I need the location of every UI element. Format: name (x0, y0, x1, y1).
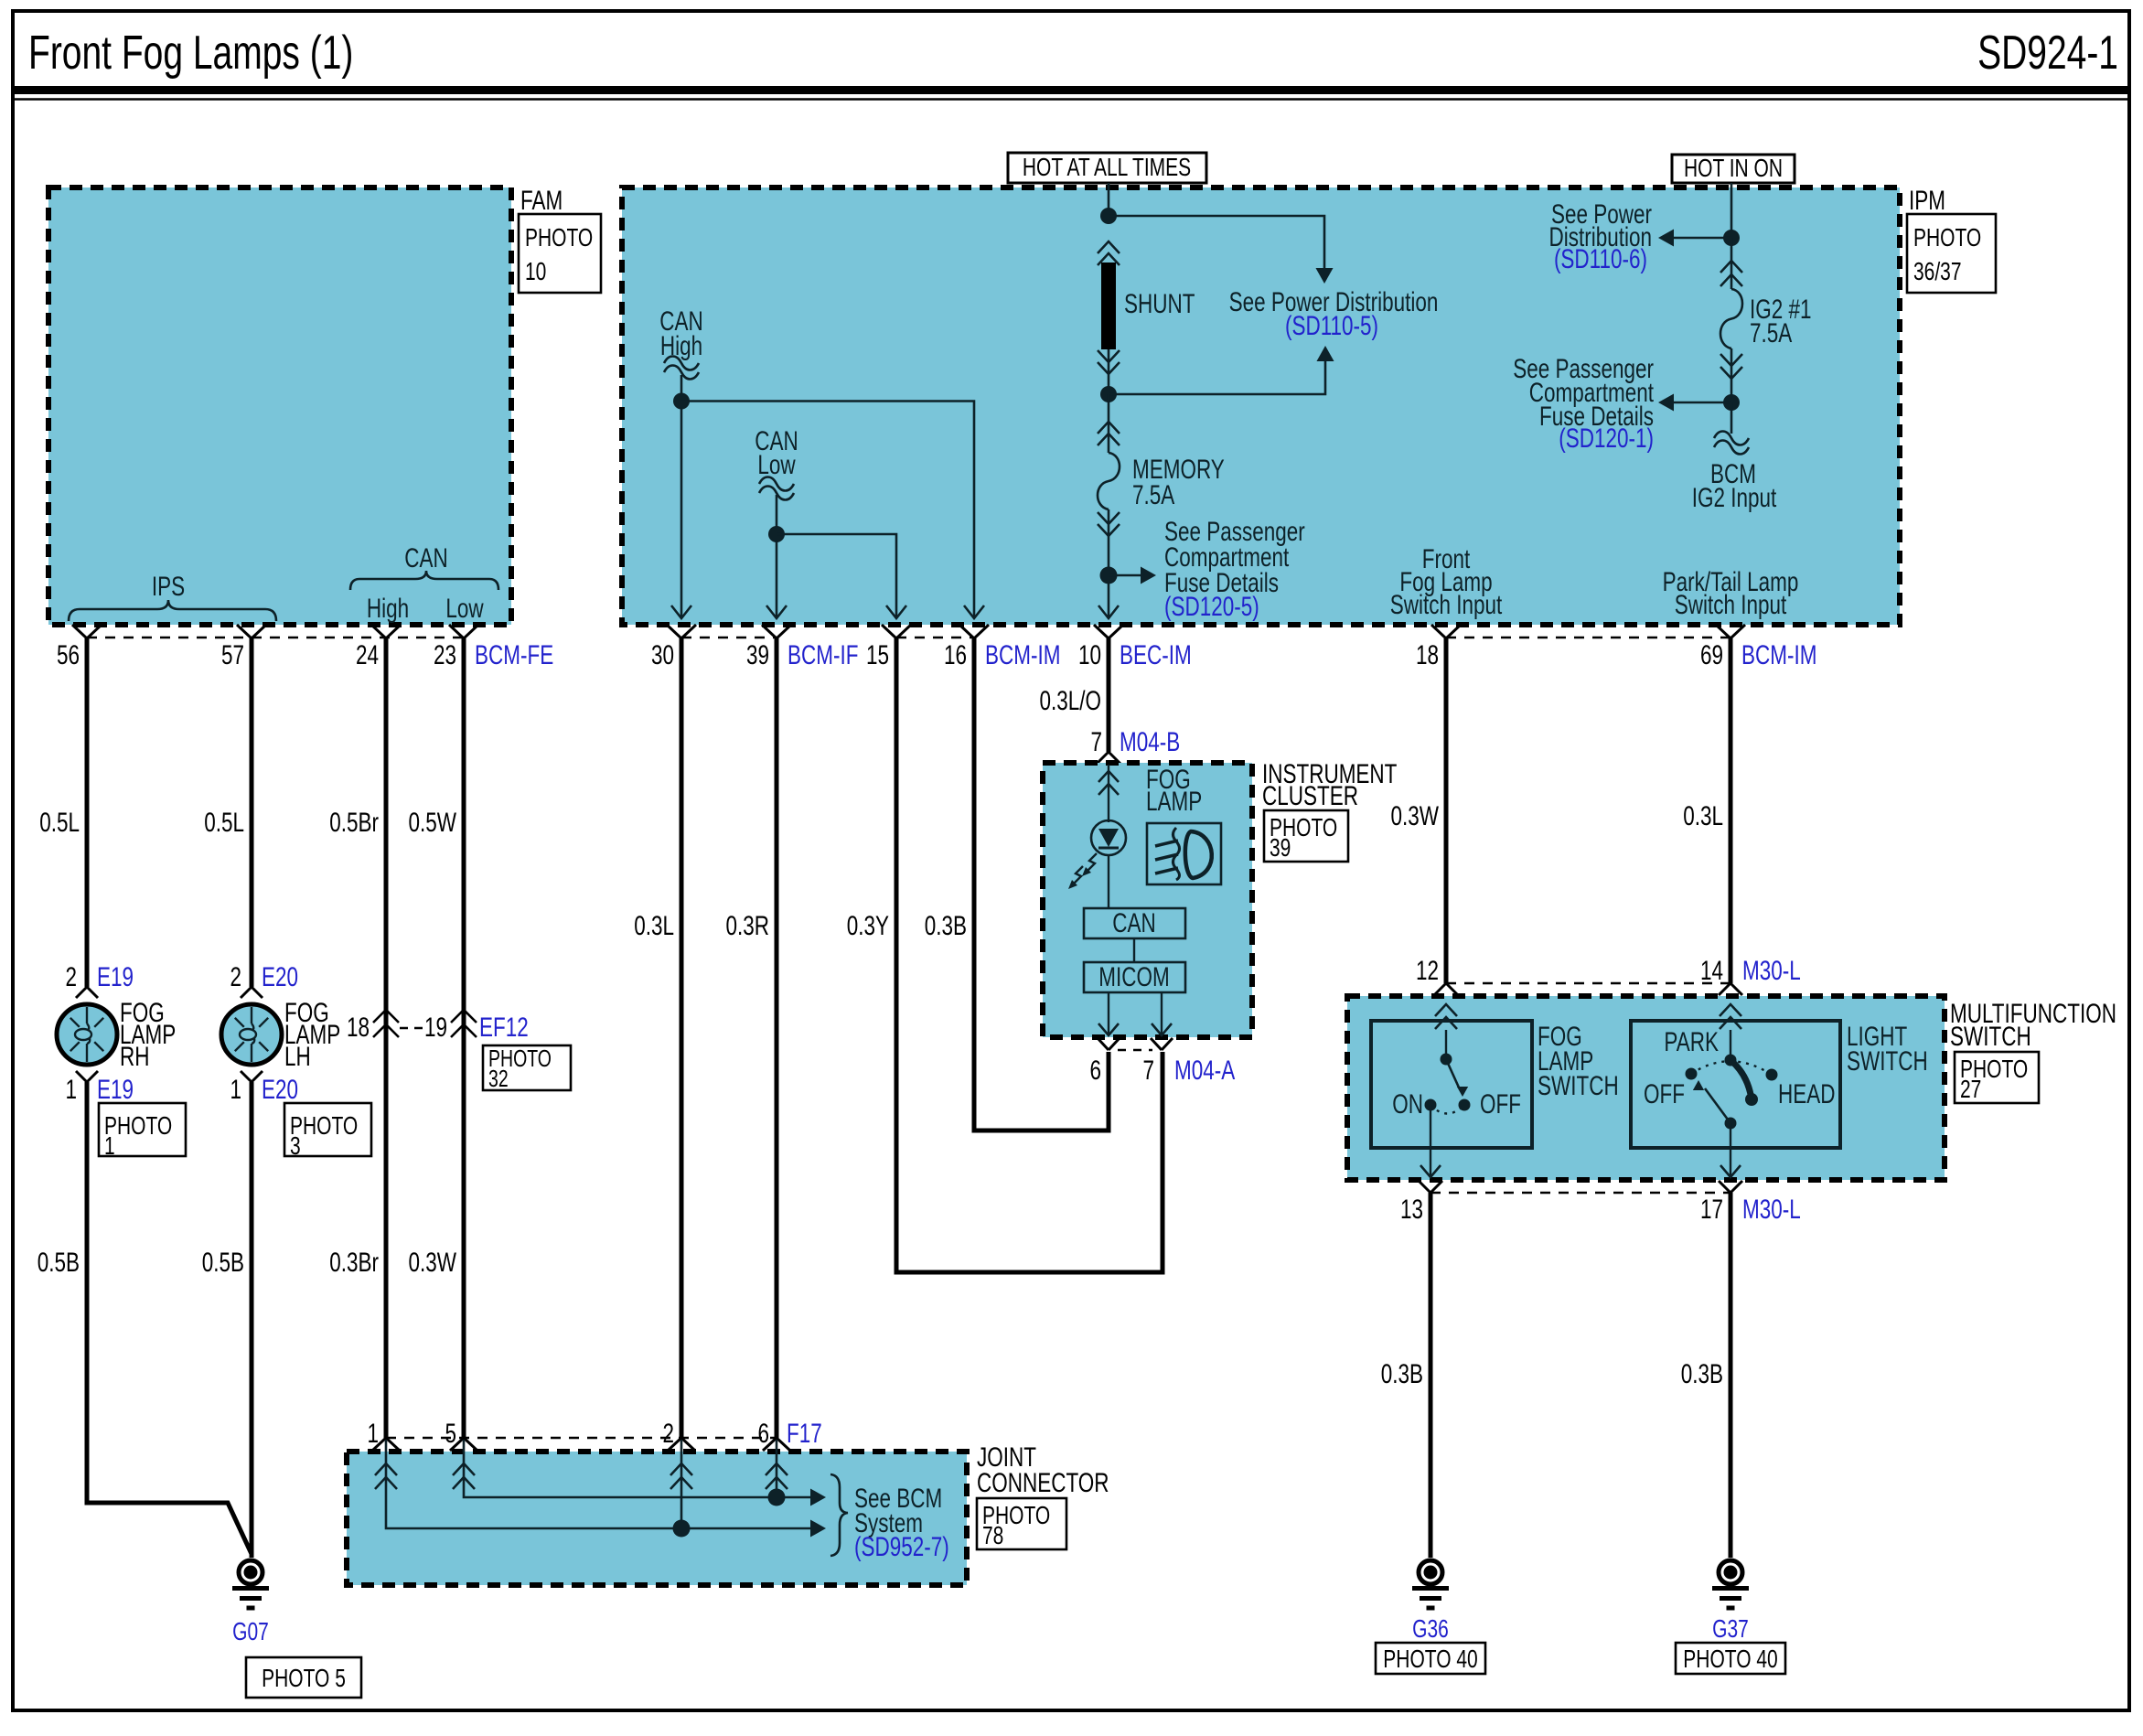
MFS entry chevrons pin14 (1720, 1004, 1741, 1029)
label FAM (520, 185, 563, 216)
header rule (13, 86, 2129, 94)
svg-text:E19: E19 (97, 961, 134, 992)
wire 39 (0.3R) (775, 638, 779, 1438)
label LIGHT SWITCH (1847, 1021, 1928, 1077)
pin 13 (1400, 1194, 1423, 1225)
label OFF (light) (1644, 1078, 1685, 1109)
label M04-A (1174, 1055, 1236, 1086)
label Fuse Details (right) (1539, 401, 1654, 432)
light switch OFF contact (1686, 1068, 1698, 1080)
connector V E20 pin1 (241, 1071, 263, 1082)
label BCM-IF (788, 639, 858, 670)
label See Passenger (right) (1513, 353, 1654, 384)
label IPM (1909, 185, 1945, 216)
label 0.3B (wire17) (1681, 1358, 1723, 1389)
label 0.3R (725, 910, 769, 941)
pin 23 (434, 639, 456, 670)
connector V pin 30 (667, 625, 696, 638)
svg-text:PHOTO: PHOTO (1913, 224, 1981, 252)
svg-text:IG2 Input: IG2 Input (1692, 482, 1777, 513)
label 0.3B (wire16) (925, 910, 967, 941)
label Front Fog Lamp Switch Input (1390, 543, 1503, 620)
wire 57 lower (0.5B) (250, 1082, 254, 1558)
joint chevrons pin1 (375, 1463, 397, 1489)
chevrons below shunt (1098, 350, 1120, 374)
wire CAN Low branch to pin15 (777, 534, 896, 618)
svg-text:High: High (660, 330, 702, 361)
wire 57 upper (0.5L) (250, 638, 254, 987)
label EF12 (479, 1012, 529, 1043)
svg-text:15: 15 (866, 639, 889, 670)
IPS brace (69, 600, 276, 621)
svg-text:(SD110-5): (SD110-5) (1285, 310, 1378, 341)
pin 39 (746, 639, 769, 670)
light switch engaged arm (1730, 1060, 1758, 1106)
HOT AT ALL TIMES box (1008, 153, 1206, 183)
svg-text:0.5W: 0.5W (409, 807, 456, 838)
label 0.5B (LH) (202, 1247, 244, 1278)
pin 5 (F17) (445, 1418, 456, 1449)
svg-text:39: 39 (746, 639, 769, 670)
svg-text:2: 2 (230, 961, 241, 992)
svg-text:RH: RH (120, 1041, 149, 1072)
ground G37 (1712, 1560, 1749, 1608)
pin 15 (866, 639, 889, 670)
fog lamp switch frame (1371, 1021, 1532, 1148)
pin 69 (1700, 639, 1723, 670)
label CAN High (659, 305, 702, 361)
svg-text:G36: G36 (1412, 1615, 1449, 1644)
svg-text:Switch Input: Switch Input (1390, 589, 1503, 620)
connector dashed line BCM-FE (87, 637, 464, 639)
joint wire pin6 stub (776, 1440, 778, 1497)
connector V M04-A pin7 (1151, 1038, 1173, 1050)
pin 2 (E20) (230, 961, 241, 992)
connector V pin 18 (1431, 625, 1461, 638)
fog switch common dot (1441, 1054, 1452, 1066)
svg-text:5: 5 (445, 1418, 456, 1449)
page number SD924-1 (1977, 25, 2118, 79)
wire shunt to dot A2 (1108, 349, 1110, 394)
wire dot A2 to fuse (1108, 394, 1110, 453)
connector V M30-L pin17 (1719, 1181, 1742, 1193)
svg-text:7.5A: 7.5A (1750, 317, 1793, 348)
fuse MEMORY 7.5A (1098, 453, 1120, 509)
fog lamp LH bulb (221, 1004, 282, 1065)
connector V F17 pin 6 (763, 1438, 790, 1451)
svg-text:Low: Low (757, 449, 796, 480)
light switch frame (1631, 1021, 1840, 1148)
svg-text:(SD110-6): (SD110-6) (1554, 243, 1647, 274)
svg-text:BCM-IF: BCM-IF (788, 639, 858, 670)
svg-text:MICOM: MICOM (1098, 961, 1169, 992)
svg-text:EF12: EF12 (479, 1012, 529, 1043)
fog switch feed wire (1445, 1030, 1447, 1059)
svg-text:1: 1 (230, 1074, 241, 1105)
multifunction switch box (1347, 996, 1945, 1180)
photo box PHOTO 3 (284, 1103, 371, 1161)
svg-text:SD924-1: SD924-1 (1977, 25, 2118, 79)
pin 18 (EF12) (347, 1012, 370, 1043)
label MEMORY (1132, 454, 1225, 485)
label (SD952-7) (854, 1531, 949, 1562)
connector V F17 pin 1 (372, 1438, 400, 1451)
label BCM (1710, 458, 1756, 489)
connector V F17 pin 2 (668, 1438, 695, 1451)
photo box PHOTO 78 (977, 1498, 1066, 1550)
EF12 chevrons wire24 (373, 1010, 399, 1037)
svg-text:FAM: FAM (520, 185, 563, 216)
svg-text:BEC-IM: BEC-IM (1120, 639, 1192, 670)
svg-text:0.5L: 0.5L (204, 807, 244, 838)
svg-text:Switch Input: Switch Input (1675, 589, 1787, 620)
label 0.5W (409, 807, 456, 838)
node dot A1 (1100, 208, 1117, 224)
wire fuse to dot B2 (1730, 348, 1733, 402)
svg-text:HOT IN ON: HOT IN ON (1684, 155, 1783, 183)
pin 1 (E20) (230, 1074, 241, 1105)
svg-text:IPM: IPM (1909, 185, 1945, 216)
FAM photo box (519, 214, 601, 293)
CAN Low squiggle (759, 477, 794, 500)
photo box PHOTO 5 (246, 1657, 361, 1698)
pin 1 (F17) (367, 1418, 379, 1449)
pin 18 (1416, 639, 1439, 670)
node dot A2 (1100, 386, 1117, 402)
photo box PHOTO 40 (G36) (1376, 1643, 1485, 1674)
label High (367, 593, 409, 624)
svg-text:10: 10 (525, 258, 546, 286)
connector V pin 10 (1094, 625, 1123, 638)
svg-text:17: 17 (1700, 1194, 1723, 1225)
fog switch arm (1446, 1059, 1468, 1097)
wire 30 (0.3L) (680, 638, 684, 1438)
joint connector dashed link F17 (386, 1437, 777, 1440)
wire 16 (0.3B) (974, 638, 1109, 1131)
node dot (pin6 bus) (768, 1489, 786, 1506)
cluster wire MICOM out left (1098, 992, 1119, 1035)
pin 2 (F17) (662, 1418, 674, 1449)
svg-text:1: 1 (104, 1132, 115, 1161)
label BCM-FE (475, 639, 553, 670)
label E20 top (262, 961, 298, 992)
label M04-B (1120, 726, 1180, 757)
label IPS (152, 571, 185, 602)
ground G36 (1412, 1560, 1449, 1608)
label JOINT CONNECTOR (977, 1441, 1109, 1498)
svg-text:78: 78 (982, 1522, 1003, 1550)
label CAN Low (755, 425, 798, 480)
chevrons below IG2 fuse (1720, 354, 1742, 379)
pin 30 (651, 639, 674, 670)
chevrons above memory fuse (1098, 422, 1120, 445)
svg-text:10: 10 (1078, 639, 1101, 670)
svg-text:16: 16 (944, 639, 967, 670)
wire CAN to MICOM (1133, 938, 1135, 962)
svg-text:E20: E20 (262, 1074, 298, 1105)
label 0.5L (RH) (39, 807, 80, 838)
node dot A3 (1100, 567, 1118, 584)
pin 17 (1700, 1194, 1723, 1225)
connector V M04-A pin6 (1098, 1038, 1120, 1050)
label G37 (1712, 1615, 1749, 1644)
svg-text:0.3L/O: 0.3L/O (1039, 685, 1101, 716)
node CAN Low dot (768, 526, 785, 542)
label FOG LAMP LH (284, 997, 340, 1072)
svg-text:Low: Low (445, 593, 484, 624)
label 0.3B (wire13) (1381, 1358, 1423, 1389)
label MULTIFUNCTION SWITCH (1950, 998, 2116, 1052)
MFS entry chevrons pin12 (1435, 1004, 1457, 1029)
joint wire pin2 stub (680, 1440, 683, 1528)
connector V pin 69 (1716, 625, 1745, 638)
svg-text:HOT AT ALL TIMES: HOT AT ALL TIMES (1023, 154, 1191, 182)
wire-end arrow pin39 (766, 605, 787, 618)
pin 12 (1416, 955, 1439, 986)
connector V E19 pin2 (76, 987, 98, 998)
svg-text:6: 6 (757, 1418, 769, 1449)
joint wire pin5 bus (464, 1440, 826, 1506)
label 0.3Br (329, 1247, 379, 1278)
svg-text:0.5Br: 0.5Br (329, 807, 379, 838)
ground G07 (232, 1560, 269, 1608)
svg-text:0.3L: 0.3L (1683, 800, 1723, 831)
label 0.5B (RH) (38, 1247, 80, 1278)
wire 23 (0.5W/0.3W) (462, 638, 466, 1438)
svg-text:SWITCH: SWITCH (1538, 1070, 1619, 1101)
joint chevrons pin2 (670, 1463, 692, 1489)
shunt bar (1101, 263, 1116, 349)
svg-text:OFF: OFF (1644, 1078, 1685, 1109)
pin 7 (M04-A) (1142, 1055, 1154, 1086)
svg-text:27: 27 (1960, 1076, 1981, 1104)
connector V pin 57 (237, 625, 266, 638)
label Park/Tail Lamp Switch Input (1663, 566, 1799, 620)
label INSTRUMENT CLUSTER (1262, 758, 1397, 811)
photo box PHOTO 27 (1955, 1052, 2039, 1104)
connector V F17 pin 5 (450, 1438, 477, 1451)
joint connector box (347, 1452, 967, 1585)
svg-text:Front Fog Lamps (1): Front Fog Lamps (1) (28, 25, 353, 79)
wire-end arrow pin16 (964, 605, 984, 618)
wire 18 (0.3W) (1444, 638, 1449, 983)
label SHUNT (1124, 288, 1195, 319)
label See Power Distribution (1229, 286, 1439, 317)
connector dashed line BCM-IM (18/69) (1446, 637, 1730, 639)
label E19 top (97, 961, 134, 992)
svg-text:SWITCH: SWITCH (1847, 1045, 1928, 1077)
arrow to SD110-6 (1658, 229, 1731, 246)
pin 24 (356, 639, 379, 670)
svg-text:0.3Br: 0.3Br (329, 1247, 379, 1278)
svg-text:CAN: CAN (404, 542, 447, 573)
svg-text:BCM-IM: BCM-IM (1741, 639, 1816, 670)
CAN High squiggle (664, 357, 699, 380)
svg-text:0.3L: 0.3L (634, 910, 674, 941)
wire dot B2 to BCM internal (1730, 402, 1733, 434)
svg-text:23: 23 (434, 639, 456, 670)
svg-text:18: 18 (1416, 639, 1439, 670)
light switch HEAD contact (1766, 1069, 1778, 1081)
M04-A dashed link (1118, 1049, 1152, 1052)
indicator LED (1091, 820, 1126, 855)
wire 15 (0.3Y) (896, 638, 1163, 1272)
svg-text:(SD120-5): (SD120-5) (1164, 591, 1259, 622)
connector V pin 16 (959, 625, 989, 638)
svg-text:(SD120-1): (SD120-1) (1559, 423, 1654, 454)
BCM internal squiggle (1714, 432, 1749, 455)
label 7.5A (memory) (1132, 479, 1175, 510)
svg-text:E19: E19 (97, 1074, 134, 1105)
wire CAN High branch to pin16 (681, 402, 974, 619)
label BEC-IM (1120, 639, 1192, 670)
connector V M04-B pin7 (1097, 752, 1120, 764)
label 0.5Br (329, 807, 379, 838)
title Front Fog Lamps (1) (28, 25, 353, 79)
svg-text:19: 19 (424, 1012, 447, 1043)
pin 19 (EF12) (424, 1012, 447, 1043)
M30-L dashed link bottom (1430, 1192, 1730, 1195)
CAN block (1084, 907, 1185, 938)
svg-text:0.3W: 0.3W (1391, 800, 1439, 831)
svg-text:LH: LH (284, 1041, 311, 1072)
svg-text:0.3B: 0.3B (1681, 1358, 1723, 1389)
node dot B1 (1723, 230, 1740, 246)
svg-text:1: 1 (367, 1418, 379, 1449)
HOT IN ON box (1672, 155, 1795, 183)
svg-text:ON: ON (1392, 1088, 1423, 1120)
label E19 bottom (97, 1074, 134, 1105)
wire 69 (0.3L) (1729, 638, 1733, 983)
label Compartment (IPM mid) (1164, 541, 1290, 573)
fog switch ON contact (1425, 1099, 1437, 1111)
svg-text:1: 1 (65, 1074, 77, 1105)
svg-text:(SD952-7): (SD952-7) (854, 1531, 949, 1562)
label 0.3W (wire18) (1391, 800, 1439, 831)
svg-text:39: 39 (1270, 834, 1291, 863)
svg-text:IPS: IPS (152, 571, 185, 602)
wire 56 upper (0.5L) (85, 638, 90, 987)
svg-text:6: 6 (1089, 1055, 1101, 1086)
label M30-L bottom (1742, 1194, 1801, 1225)
label 0.3L (wire69) (1683, 800, 1723, 831)
connector V pin 23 (449, 625, 478, 638)
svg-text:12: 12 (1416, 955, 1439, 986)
svg-text:7: 7 (1142, 1055, 1154, 1086)
svg-text:0.5L: 0.5L (39, 807, 80, 838)
label PARK (1664, 1026, 1719, 1057)
light switch common dot (1725, 1118, 1737, 1130)
label See Power (right) (1551, 198, 1652, 230)
node dot B2 (1723, 394, 1740, 411)
svg-text:0.3W: 0.3W (409, 1247, 456, 1278)
svg-text:2: 2 (65, 961, 77, 992)
connector V E20 pin2 (241, 987, 263, 998)
label IG2 Input (1692, 482, 1777, 513)
CAN brace (FAM) (350, 571, 498, 590)
wire hot-at-all-times feed (1108, 183, 1110, 216)
label 0.3L/O (1039, 685, 1101, 716)
svg-text:56: 56 (57, 639, 80, 670)
photo box PHOTO 39 (1264, 810, 1348, 863)
svg-text:SHUNT: SHUNT (1124, 288, 1195, 319)
wire 56 lower (0.5B) (87, 1082, 252, 1554)
photo box PHOTO 40 (G37) (1676, 1643, 1785, 1674)
pin 14 (1700, 955, 1723, 986)
wire branch to SD110-5 (down arrow) (1109, 216, 1334, 284)
pin 6 (M04-A) (1089, 1055, 1101, 1086)
svg-text:BCM-IM: BCM-IM (985, 639, 1060, 670)
MICOM block (1084, 961, 1185, 992)
EF12 dashed link (400, 1027, 423, 1030)
label BCM-IM (right) (1741, 639, 1816, 670)
svg-text:High: High (367, 593, 409, 624)
label (SD120-1) (1559, 423, 1654, 454)
label Fuse Details (IPM mid) (1164, 567, 1279, 598)
connector V pin 56 (72, 625, 102, 638)
IPM module box (622, 188, 1900, 625)
svg-text:PHOTO 40: PHOTO 40 (1383, 1645, 1477, 1674)
photo box PHOTO 32 (483, 1045, 571, 1091)
FAM module box (48, 188, 511, 625)
svg-text:30: 30 (651, 639, 674, 670)
connector V M30-L pin12 (1434, 983, 1458, 995)
svg-text:14: 14 (1700, 955, 1723, 986)
instrument cluster box (1043, 763, 1252, 1037)
label HEAD (1778, 1078, 1835, 1109)
cluster wire MICOM out right (1152, 992, 1172, 1035)
label G36 (1412, 1615, 1449, 1644)
svg-text:M30-L: M30-L (1742, 955, 1801, 986)
wire hot-in-on feed (1730, 183, 1733, 238)
svg-text:13: 13 (1400, 1194, 1423, 1225)
wire CAN Low (776, 495, 778, 618)
light switch selector arm (1693, 1080, 1730, 1123)
connector V M30-L pin13 (1419, 1181, 1442, 1193)
label FOG LAMP (cluster) (1146, 764, 1202, 817)
label G07 (232, 1618, 269, 1646)
wire-end arrow pin15 (886, 605, 906, 618)
joint wire pin1 bus (386, 1440, 826, 1538)
header thin rule (13, 98, 2129, 101)
wire-end arrow pin10 (1098, 605, 1119, 618)
label Distribution (right) (1549, 221, 1652, 252)
pin 56 (57, 639, 80, 670)
svg-text:0.5B: 0.5B (38, 1247, 80, 1278)
light switch output wire (1720, 1123, 1741, 1177)
IPM photo box (1907, 214, 1996, 293)
pin 2 (E19) (65, 961, 77, 992)
joint chevrons pin5 (453, 1463, 475, 1489)
M30-L dashed link top (1446, 982, 1730, 985)
light switch travel arc (1691, 1061, 1772, 1075)
svg-text:2: 2 (662, 1418, 674, 1449)
svg-text:PARK: PARK (1664, 1026, 1719, 1057)
label 7.5A (IG2) (1750, 317, 1793, 348)
node dot (pin2 bus) (673, 1520, 691, 1538)
svg-text:7.5A: 7.5A (1132, 479, 1175, 510)
fog switch OFF contact (1459, 1099, 1471, 1111)
label (SD120-5) (1164, 591, 1259, 622)
svg-text:BCM-FE: BCM-FE (475, 639, 553, 670)
pin 10 (1078, 639, 1101, 670)
svg-text:18: 18 (347, 1012, 370, 1043)
wire 24 (0.5Br/0.3Br) (384, 638, 389, 1438)
svg-text:PHOTO: PHOTO (525, 224, 593, 252)
svg-text:7: 7 (1090, 726, 1102, 757)
svg-text:0.3Y: 0.3Y (847, 910, 890, 941)
wire fuse to pin 10 (1108, 509, 1110, 618)
